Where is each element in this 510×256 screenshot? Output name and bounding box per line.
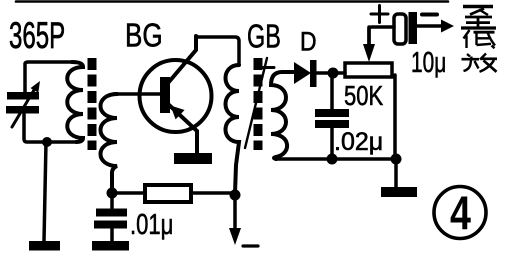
junction node detector: [328, 68, 339, 79]
antenna coil primary L1a: [67, 62, 83, 142]
negative dash: [243, 244, 258, 247]
pot wiper arrow: [367, 27, 371, 44]
wire diode to pot: [316, 71, 345, 75]
wire .02u to rail: [330, 128, 334, 159]
wire down arrow (negative supply): [233, 195, 237, 231]
capacitor .01u plates: [94, 209, 127, 229]
figure number circle 4: [434, 187, 486, 239]
wire resistor right: [191, 191, 235, 195]
top border line: [16, 0, 448, 3]
variable capacitor C1 365P plates: [6, 92, 39, 114]
svg-text:BG: BG: [125, 18, 163, 55]
junction node rail left: [327, 154, 338, 165]
antenna coil secondary L1b: [101, 94, 118, 190]
resistor R1: [145, 185, 191, 202]
svg-text:4: 4: [450, 187, 471, 240]
wire junction down to .02u: [330, 73, 334, 109]
chinese char fang (amp): [462, 54, 498, 72]
svg-text:50K: 50K: [344, 81, 383, 112]
plus sign: [371, 6, 388, 23]
wire cap top to coil top: [25, 62, 72, 92]
electrolytic 10u positive plate: [394, 14, 406, 44]
junction node tank bottom: [42, 137, 52, 147]
svg-text:.01μ: .01μ: [130, 209, 173, 241]
junction node resistor left: [107, 188, 118, 199]
transistor base bar: [160, 77, 170, 113]
wire rail to ground: [394, 159, 398, 187]
svg-text:GB: GB: [247, 19, 281, 56]
svg-text:365P: 365P: [9, 15, 65, 57]
diode D cathode bar: [310, 60, 317, 87]
wire junction to ground: [44, 142, 46, 241]
wire pot right end down: [393, 75, 397, 159]
transformer core (dashed): [88, 58, 97, 150]
junction node rail right: [391, 154, 402, 165]
svg-text:10μ: 10μ: [411, 47, 446, 79]
chinese char di (low): [464, 30, 496, 48]
GB transformer secondary: [271, 72, 294, 159]
wire cap to output arrow: [417, 24, 441, 28]
transistor collector stroke: [168, 36, 196, 83]
potentiometer 50K body: [345, 63, 392, 77]
transistor emitter stroke: [168, 104, 197, 153]
minus sign: [422, 13, 437, 17]
wire cap to ground: [110, 228, 114, 241]
GB transformer primary: [226, 65, 240, 193]
diode D triangle: [294, 62, 311, 84]
wire collector top to GB primary: [196, 37, 239, 65]
wire wiper to 10u cap: [369, 27, 394, 44]
GB adjust slash: [245, 58, 267, 148]
junction node below GB primary: [230, 190, 241, 201]
svg-text:D: D: [300, 27, 317, 57]
variable capacitor arrow: [12, 90, 34, 127]
diode D anode wire: [282, 70, 294, 74]
wire resistor left: [112, 191, 145, 195]
bottom rail: [276, 157, 396, 161]
capacitor .02u plates: [315, 109, 349, 128]
GB transformer core: [254, 58, 263, 150]
chinese char zhi (to): [461, 7, 496, 29]
wire junction to cap: [110, 193, 114, 208]
transistor BG circle: [140, 60, 212, 132]
ground under pot: [381, 187, 417, 197]
wire base: [114, 92, 160, 96]
ground under .01u: [92, 241, 129, 251]
wire cap bottom to tank bottom: [24, 114, 74, 142]
ground tank: [29, 241, 60, 251]
ground under emitter: [174, 153, 212, 164]
svg-text:.02μ: .02μ: [334, 128, 383, 156]
transistor emitter arrowhead: [171, 106, 185, 120]
electrolytic 10u negative plate: [409, 12, 418, 44]
